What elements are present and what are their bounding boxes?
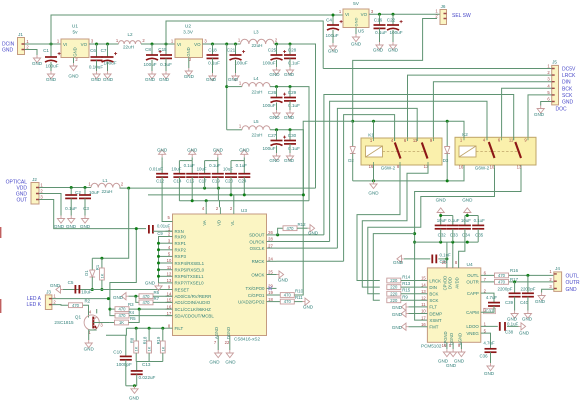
wire U3 pin stub [166,230,173,232]
junction cap rail tap [413,241,416,244]
wire D3 top [446,121,448,146]
svg-text:C32: C32 [438,233,447,238]
capacitor C38 [500,322,505,331]
svg-text:OUTR: OUTR [466,280,478,285]
wire K2a common to R15 [368,168,495,294]
ground J1.2 [33,55,40,63]
inductor L5 coil [242,126,270,130]
wire C2 bottom [70,198,72,215]
svg-text:GND: GND [32,61,43,66]
svg-text:100uF: 100uF [325,33,338,38]
resistor R8 box [134,341,139,353]
ground U5 [352,34,359,42]
wire J5.5 SCK to K2 [528,95,552,137]
svg-text:17: 17 [167,311,172,316]
wire U2 GND pin [188,58,190,69]
svg-text:VI: VI [177,42,181,47]
wire C26 top [276,87,278,97]
svg-text:GND: GND [186,47,191,56]
wire FILT line [126,327,165,329]
wire VL drop [233,195,235,207]
wire CAPP [481,293,494,302]
junction [466,241,469,244]
wire to R3 [110,308,115,310]
wire R13 to DIN [401,286,428,288]
resistor R4 box [115,313,129,318]
svg-text:14: 14 [421,282,426,287]
wire R9 to SCK [401,299,428,301]
ground C29 [286,110,293,118]
wire R6 to AD0 [153,295,173,297]
ground C18 [209,73,216,81]
svg-text:GND: GND [103,77,114,82]
svg-text:CAPM: CAPM [466,310,479,315]
ground J4 [538,293,545,301]
junction C24 [243,193,246,196]
svg-text:1K: 1K [99,273,104,278]
svg-text:C17: C17 [199,179,208,184]
ground C38 [519,323,526,330]
wire C15 bottom [191,177,193,201]
svg-text:0.01uF: 0.01uF [149,166,163,171]
svg-text:GND: GND [206,77,217,82]
svg-text:16: 16 [167,304,172,309]
wire K1 coil- drop [373,165,375,181]
wire U3 pin stub [166,295,173,297]
diode D2 symbol [350,147,356,154]
wire relay coil return rail [353,165,464,181]
wire RXP stub [159,249,166,251]
transistor Q1 [84,315,99,330]
ground C40 [524,311,531,319]
wire C32 bottom [440,229,442,242]
wire C1 to gnd [50,62,52,71]
junction C21 [234,43,237,46]
svg-text:4.7uF: 4.7uF [486,295,498,300]
wire K1b common to R13 [362,165,428,287]
wire FILT corner [106,328,126,335]
svg-text:GND: GND [145,77,156,82]
wire U5 VO to J6.1 [369,13,440,15]
svg-text:17: 17 [421,315,426,320]
svg-text:Q1: Q1 [75,315,82,320]
junction R3 left [108,308,111,311]
svg-text:C5: C5 [68,280,74,285]
svg-text:BCK: BCK [429,292,438,297]
svg-text:100uF: 100uF [103,61,116,66]
svg-text:10uF: 10uF [81,290,92,295]
wire DGND stub [452,342,454,349]
svg-text:AD0/CS/RV/RERR: AD0/CS/RV/RERR [175,294,212,299]
inductor L1 coil [91,183,120,187]
wire C2 top [70,188,72,195]
wire C28 top [289,44,291,55]
wire VD pin stub [219,200,221,207]
junction [157,248,160,251]
wire C28 bottom [289,58,291,67]
svg-text:GND: GND [269,72,280,77]
sheet frame tick [0,299,2,313]
svg-text:OUTR: OUTR [566,280,580,286]
wire RMCK [277,260,344,262]
ground Q1 [85,340,92,348]
junction C25 [275,43,278,46]
ground C28 [286,67,293,75]
svg-text:470: 470 [143,300,151,305]
ground C34C35 [464,208,471,216]
svg-text:16: 16 [459,165,464,170]
capacitor C8 plates [146,54,158,56]
svg-text:VI: VI [345,12,349,17]
svg-text:C3: C3 [83,206,89,211]
svg-text:D2: D2 [348,158,354,163]
svg-text:RESET: RESET [175,287,190,292]
wire J5.1 DC5V [323,68,552,70]
junction R1 top [100,257,103,260]
wire LDOO to C38 [481,325,498,327]
capacitor C30 plates [284,140,296,142]
svg-text:26: 26 [268,230,273,235]
wire C7 top [107,44,109,57]
ground R12 [308,225,315,232]
wire C4 top [332,15,334,25]
wire 3.3V riser to L4/L5 rows [226,44,228,130]
svg-text:U5: U5 [358,29,364,35]
wire R14 to LRCK [401,280,428,282]
wire C29 top [289,87,291,97]
svg-text:GND: GND [562,100,574,106]
svg-text:100uF: 100uF [262,146,275,151]
wire C22 bottom [392,30,394,42]
wire C25 top [276,44,278,55]
svg-text:1K: 1K [160,346,165,351]
wire U3 pin stub [166,262,173,264]
diode D1 symbol [90,270,96,277]
wire R15 to BCK [401,293,428,295]
wire C40 bottom [527,297,529,311]
svg-text:470: 470 [72,303,80,308]
svg-text:PCM5102: PCM5102 [421,344,442,349]
svg-text:GND: GND [278,278,289,283]
relay K2 coil [459,146,476,157]
svg-text:5V: 5V [353,1,360,7]
svg-text:OMCK: OMCK [251,272,264,277]
svg-text:C6: C6 [90,48,96,53]
junction C32 gnd [439,214,442,217]
wire C6 top [96,44,98,57]
wire C35 bottom [477,229,479,242]
junction C26 [275,85,278,88]
wire RXP stub [159,269,166,271]
wire R2 to Q1 base [83,305,89,317]
wire C35 top [477,216,479,226]
svg-text:L1: L1 [102,178,108,183]
svg-text:L5: L5 [253,119,259,124]
svg-text:C38: C38 [505,330,514,335]
svg-text:100uF: 100uF [389,30,402,35]
junction DCIN node [50,43,53,46]
junction C20/VL [230,193,233,196]
svg-text:R15: R15 [402,288,411,293]
svg-text:L4: L4 [253,76,259,81]
resistor R14 box [387,278,401,283]
resistor R10 box [280,293,294,298]
ground C36 [487,363,494,371]
wire U3 right stub [267,247,277,249]
wire L3 out to VD rail riser [274,44,316,188]
wire to R5 [110,322,115,324]
ground U4 AGND [458,349,465,357]
junction C3 [84,186,87,189]
sheet frame tick [0,227,2,238]
resistor R18 box [147,341,152,353]
wire R8 top [135,328,137,341]
wire U3 right stub [267,294,277,296]
junction C27 [275,128,278,131]
capacitor C1 plates [45,56,57,58]
svg-text:R14: R14 [402,275,411,280]
svg-text:4.7uF: 4.7uF [483,341,495,346]
ground C27 [273,153,280,161]
wire C12 top [161,161,163,174]
wire R5 to SCL node [129,309,140,322]
wire C6 bottom [96,60,98,71]
wire C21 bottom [235,60,237,73]
ground cap row [214,150,221,158]
wire OLRCK to K2 throw [330,101,487,241]
svg-text:RXP3: RXP3 [175,254,187,259]
wire K2b common / XSMT [415,168,521,320]
wire U3 pin stub [166,327,173,329]
svg-text:C39: C39 [505,300,514,305]
wire U1 VO [89,43,119,45]
svg-text:OUTL: OUTL [467,273,479,278]
wire R8 bottom [135,353,137,362]
svg-text:RXP2: RXP2 [175,248,187,253]
wire C24 bottom [243,177,245,195]
svg-text:OUT: OUT [16,198,27,204]
capacitor C15 plates [160,54,172,56]
svg-text:220: 220 [390,298,398,303]
svg-text:470: 470 [498,273,506,278]
svg-text:FLT: FLT [429,305,437,310]
junction [157,268,160,271]
resistor R17 box [495,280,509,285]
svg-text:C33: C33 [450,233,459,238]
svg-text:470: 470 [498,280,506,285]
wire RMCK to K1 throw [344,115,395,262]
ground J2.2 [57,216,64,224]
svg-text:R9: R9 [402,294,408,299]
svg-text:GND: GND [84,347,95,352]
wire to C13 [136,362,138,371]
connector J6 body [440,10,447,25]
svg-text:C19: C19 [212,179,221,184]
wire C36 bottom [490,352,492,363]
wire R3 to SCL [129,308,173,310]
relay K1 coil [366,146,383,157]
wire J6.2 SEL to relay coil rail [353,19,437,122]
svg-text:GND: GND [284,72,295,77]
svg-text:SCK: SCK [429,298,438,303]
wire R4 to SDA [129,315,173,317]
svg-text:220: 220 [390,285,398,290]
wire U3 pin stub [166,249,173,251]
svg-text:R16: R16 [510,268,519,273]
svg-text:C26: C26 [268,90,277,95]
svg-text:RXN: RXN [175,229,184,234]
wire R bottoms join [136,361,163,363]
wire U/GPO2 to R11 [277,301,281,303]
wire C27 bottom [276,146,278,154]
wire VDD rail A [120,187,316,190]
wire C20-C24 link [231,160,244,162]
svg-text:27: 27 [268,243,273,248]
svg-text:DC5V: DC5V [562,67,576,73]
svg-text:OLRCK: OLRCK [249,239,264,244]
wire gnd to R6R7 [129,295,139,297]
svg-text:2200pF: 2200pF [498,287,513,292]
svg-text:19: 19 [268,290,273,295]
wire CAPM [481,306,494,312]
capacitor C34 plates [459,224,471,226]
svg-text:2SC1815: 2SC1815 [54,320,74,325]
svg-text:LRCK: LRCK [562,73,576,79]
svg-text:GND: GND [392,305,403,310]
resistor R2 box [69,303,83,308]
wire OUTL to J4 [481,274,554,276]
wire C4 bottom [332,30,334,43]
junction C39 tap [513,280,516,283]
svg-text:GND: GND [239,148,250,153]
wire J3.2 to R2 [52,304,68,307]
svg-text:R5: R5 [130,316,136,321]
svg-text:0.1uF: 0.1uF [184,163,196,168]
ground C39 [511,311,518,319]
svg-text:18: 18 [268,297,273,302]
svg-text:470: 470 [119,313,127,318]
wire DVDD riser [452,242,454,268]
svg-text:16: 16 [421,322,426,327]
wire C3 top [84,188,86,195]
svg-text:J6: J6 [441,4,446,9]
svg-text:RXP6/TXSEL1: RXP6/TXSEL1 [175,274,205,279]
svg-text:J5: J5 [552,60,557,65]
wire J2.2 GND [39,194,61,216]
svg-text:GND: GND [462,198,473,203]
svg-text:19: 19 [442,343,447,348]
capacitor C14 plates [173,173,185,175]
relay K1 contact 1 [395,143,401,159]
junction C18 [211,43,214,46]
wire R12 left [278,228,284,235]
svg-text:22uH: 22uH [252,133,263,138]
svg-text:L2: L2 [127,32,133,37]
wire U2 VO 3.3V [203,43,241,45]
capacitor C19 plates [212,173,224,175]
ground C21 [232,73,239,81]
capacitor C7 plates [102,56,114,58]
wire DGND stub [229,336,231,351]
wire C19 top [217,161,219,174]
wire C15 bottom [165,58,167,71]
svg-text:GND: GND [228,77,239,82]
capacitor C39 plates [509,292,521,294]
wire to R9 [373,234,414,301]
svg-text:220: 220 [390,291,398,296]
connector J1 body [18,38,25,55]
relay K1 pin marks [374,138,434,165]
wire C8 top [151,44,153,55]
capacitor C22 plates [387,24,399,26]
ground R6R7 [121,293,128,300]
wire VA pin stub [205,201,207,208]
wire C39 top [514,282,516,293]
svg-text:DIN: DIN [429,285,437,290]
ground C15 [162,71,169,79]
svg-text:GND: GND [351,42,362,47]
ground U4 CPGND [443,349,450,357]
junction L4 in [225,85,228,88]
ground C3 [81,216,88,224]
svg-text:DEMP: DEMP [429,311,442,316]
svg-text:TX/GPO0: TX/GPO0 [245,286,265,291]
no-connect X on TX/GPO0 [268,287,272,291]
svg-text:DIN: DIN [562,80,571,86]
svg-text:C15: C15 [186,179,195,184]
wire C27 top [276,130,278,140]
junction R6R7 [134,295,137,298]
svg-text:R1: R1 [95,264,100,270]
svg-text:C25: C25 [268,48,277,53]
ground C32C33 [437,208,444,216]
svg-text:1K: 1K [134,346,139,351]
relay K1 contact 2 [422,143,428,159]
wire D1 bottom [91,277,93,290]
wire C7 bottom [107,62,109,71]
junction [157,255,160,258]
junction VA drop [205,199,208,202]
svg-text:SCL/CCLK/96KHZ: SCL/CCLK/96KHZ [175,307,212,312]
wire C33 top [452,216,454,226]
junction filt gnd [133,384,136,387]
svg-text:D3: D3 [443,158,449,163]
wire R18 top [148,328,150,341]
capacitor C21 plates [230,54,242,56]
relay K2 dashed link [476,151,518,153]
wire D1 top [91,258,93,269]
svg-text:0.1uF: 0.1uF [208,61,220,66]
ground FLT [401,303,408,310]
svg-text:GND: GND [308,231,319,236]
capacitor C29 plates [284,97,296,99]
capacitor C6 plates [91,56,103,58]
svg-text:22uH: 22uH [252,90,263,95]
ground R11 [303,298,310,305]
svg-text:OSCLK: OSCLK [250,246,265,251]
capacitor C20 plates [225,173,237,175]
wire relay coil rail [353,121,464,138]
capacitor C24 plates [238,173,250,175]
junction [157,242,160,245]
svg-text:GND: GND [284,158,295,163]
svg-text:C34: C34 [462,233,471,238]
svg-text:GND: GND [534,112,545,117]
svg-text:100uF: 100uF [45,64,58,69]
wire RXP tie vertical [159,237,166,283]
svg-text:U/AD2/GPO2: U/AD2/GPO2 [238,299,265,304]
svg-text:GND: GND [269,158,280,163]
